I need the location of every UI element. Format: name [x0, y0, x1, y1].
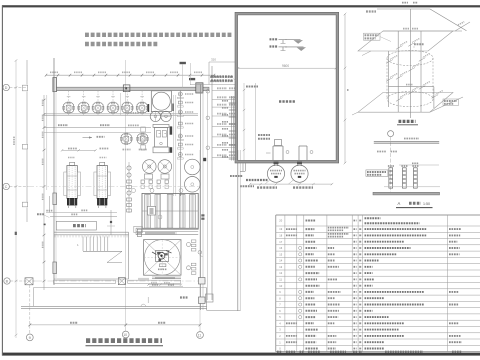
water tank walls	[236, 14, 337, 162]
tank inner dim	[238, 67, 336, 69]
wall to tank	[190, 83, 236, 85]
tower dim line	[148, 284, 181, 286]
riser branch 157.7	[212, 157, 236, 159]
outer dimension line	[15, 60, 17, 338]
axis circle 9	[26, 334, 33, 341]
outer dim label	[13, 136, 15, 145]
sheet border left	[1, 5, 3, 355]
right side label	[246, 179, 268, 181]
boiler label 2	[100, 148, 109, 150]
left wall	[53, 58, 55, 285]
wall tick hatch	[55, 235, 127, 238]
svg-text:A: A	[398, 201, 401, 206]
apron top edge	[33, 287, 206, 289]
side boxes	[134, 226, 143, 232]
apron bottom double line	[21, 305, 207, 307]
iso top edge labels	[402, 2, 408, 4]
equipment table frame	[276, 214, 480, 216]
axis B line across apron	[36, 280, 206, 282]
apron dim	[149, 285, 183, 287]
dark tick right of unit 6	[148, 104, 150, 112]
apron door bump	[141, 304, 146, 306]
iso roof plane	[358, 31, 453, 51]
dark tick	[44, 224, 46, 226]
expansion tank pedestal	[153, 124, 169, 127]
iso valve 421,60	[419, 59, 423, 62]
detail axis circle	[388, 131, 394, 137]
iso right pipe diagonal	[430, 97, 463, 112]
lintel bar	[189, 78, 195, 80]
tank capacity label	[279, 100, 296, 103]
isometric top label	[366, 10, 376, 12]
pump P5	[143, 160, 157, 174]
column K3	[196, 83, 203, 93]
suction pipes 2	[298, 146, 300, 161]
iso pipe level 2	[383, 30, 462, 32]
riser pipe	[211, 66, 213, 300]
flow arrow	[83, 137, 93, 139]
pump unit PU8	[137, 134, 147, 144]
bottom dimension line	[30, 324, 200, 326]
wall dark clip	[203, 158, 206, 161]
tank cylinder bottom	[387, 92, 433, 107]
duct drop line	[182, 64, 184, 87]
svg-text:11: 11	[198, 333, 202, 337]
trench boxes	[137, 229, 141, 233]
axis 11 line	[199, 150, 201, 332]
iso valve 410.5,93	[408, 92, 412, 95]
iso left label box	[364, 33, 381, 40]
wall column C4	[199, 278, 206, 285]
tank right dim	[344, 14, 346, 163]
pump unit PU6	[137, 103, 147, 113]
cooling tower CT1	[144, 240, 182, 276]
axis circle 11	[197, 332, 204, 339]
planter 2	[128, 280, 181, 283]
riser branch 90.7	[212, 90, 236, 92]
svg-text:D: D	[5, 86, 8, 90]
west wall segment 1	[26, 60, 28, 85]
dark bar right of HX	[172, 104, 174, 112]
pipe run 3	[44, 131, 151, 133]
pump P3	[150, 111, 160, 121]
pipe fitting circles	[206, 90, 210, 94]
door step	[206, 294, 214, 302]
unit leaders row2	[123, 149, 131, 151]
iso valve 410.5,70	[408, 69, 412, 72]
iso valve 398.2,78	[396, 77, 400, 80]
left stub label	[230, 175, 243, 177]
sheet border top	[2, 5, 480, 7]
detail text box	[366, 170, 388, 176]
fitting group 1	[141, 180, 144, 183]
chiller control box	[148, 206, 156, 215]
svg-text:9600: 9600	[282, 64, 289, 68]
chiller CH1	[142, 193, 198, 229]
iso right label box	[443, 99, 459, 105]
tank cylinder sides	[386, 58, 388, 99]
burner block 1	[67, 198, 77, 205]
detail dim	[399, 164, 439, 166]
stairs	[82, 237, 84, 252]
column B mark	[25, 278, 33, 285]
pump unit PU5	[122, 103, 132, 113]
iso mid label	[414, 43, 424, 45]
front pipes	[46, 212, 117, 214]
iso valve 398.2,100	[396, 99, 400, 102]
axis circle B	[4, 278, 10, 284]
drain label	[37, 213, 45, 215]
iso valve 388.4,62	[386, 61, 390, 64]
pump unit PU2	[79, 103, 89, 113]
pump bases	[145, 174, 153, 179]
tank bottom dim	[250, 183, 332, 185]
west wall pilaster 1	[22, 85, 27, 91]
room name plate	[56, 221, 96, 230]
iso title	[399, 120, 416, 123]
plan title	[86, 338, 162, 343]
planter 1	[54, 280, 116, 283]
pipe run 2	[44, 127, 151, 129]
float valve 1	[279, 39, 288, 41]
wall column C2	[53, 193, 57, 205]
stair room	[54, 231, 129, 233]
axis circle C	[3, 183, 9, 189]
table columns	[284, 215, 286, 352]
wall dark marks	[201, 214, 204, 216]
column K2	[123, 85, 130, 92]
pump P4	[161, 111, 171, 121]
detail beam	[374, 141, 439, 143]
pump unit PU1	[64, 103, 74, 113]
pump unit PU3	[93, 103, 103, 113]
iso valve 398.2,48	[396, 47, 400, 50]
buffer tank T1	[185, 159, 201, 175]
pump labels	[257, 186, 277, 188]
wall fitting circle	[198, 251, 202, 255]
riser branch 99.7	[212, 99, 236, 101]
duct dark bar	[180, 62, 186, 64]
riser branch 107.1	[212, 106, 236, 108]
pipe run 1	[44, 112, 198, 114]
column K1	[53, 78, 57, 92]
left dim labels	[42, 99, 44, 106]
top wall band	[54, 87, 209, 90]
riser branch 126.4	[212, 125, 236, 127]
riser top labels	[210, 76, 233, 78]
axis 9 line	[29, 285, 31, 334]
pump unit PU7	[121, 134, 131, 144]
left small boxes	[141, 127, 146, 132]
tower label	[158, 268, 167, 270]
west wall pilaster 2	[22, 144, 27, 149]
tank left risers	[230, 96, 232, 161]
tank drain elbow	[242, 163, 244, 171]
tower fittings B	[187, 266, 191, 270]
note text line 2	[85, 42, 159, 46]
boiler dim ticks	[68, 157, 75, 159]
table rows	[276, 225, 480, 227]
valve column riser	[179, 90, 181, 196]
detail lower dim	[384, 186, 440, 188]
feed pump FP1	[267, 165, 284, 182]
isometric top pipe	[377, 8, 430, 10]
iso valve 410.5,45	[408, 44, 412, 47]
sill extension	[138, 277, 149, 279]
float label 2	[270, 45, 279, 47]
boiler jacket 1	[64, 172, 67, 196]
svg-text:10: 10	[123, 333, 127, 337]
riser branch 136.9	[212, 136, 236, 138]
tank cylinder top	[387, 50, 433, 65]
detail columns	[389, 168, 393, 188]
tank top-left labels	[211, 75, 233, 77]
dark bar right 2	[170, 147, 173, 153]
pipe pair	[173, 95, 175, 196]
boiler B1	[70, 162, 75, 165]
suction pipes	[272, 146, 274, 161]
pump unit PU4	[108, 103, 118, 113]
riser dim line	[207, 88, 209, 300]
boiler B2	[100, 162, 105, 165]
west wall pilaster 3	[22, 202, 27, 207]
iso floor plane	[358, 93, 453, 113]
dark bar right 1	[170, 126, 173, 134]
boiler dim line	[62, 149, 96, 151]
wall column C5	[199, 297, 206, 304]
iso top diagonal	[430, 9, 467, 31]
riser branch 147.3	[212, 146, 236, 148]
axis10 column on B	[118, 278, 125, 285]
west wall segment 3	[26, 150, 28, 203]
pipe trench	[136, 227, 198, 229]
pipe labels right	[128, 112, 139, 114]
detail labels	[377, 151, 386, 153]
iso branch up-right	[455, 22, 470, 31]
axis 10 line	[125, 60, 127, 331]
detail ground	[373, 192, 440, 195]
label circles	[132, 189, 136, 193]
boiler jacket 2	[94, 172, 97, 196]
drain pipe	[48, 196, 50, 213]
boiler label 1	[68, 148, 77, 150]
tower center cluster	[156, 251, 169, 262]
fitting group 2	[128, 162, 130, 213]
duct line	[189, 63, 191, 85]
tank water level label	[246, 86, 258, 88]
iso valve 388.4,80	[386, 79, 390, 82]
riser branch 116.0	[212, 115, 236, 117]
sheet border bottom	[2, 353, 480, 356]
note text line 1	[85, 33, 233, 37]
iso mid pipe	[388, 86, 434, 88]
top dimension line	[46, 74, 214, 76]
axis circle D	[3, 84, 9, 90]
west wall segment 2	[26, 92, 28, 145]
outer dim dark tick	[15, 232, 17, 235]
svg-text:320: 320	[211, 58, 216, 62]
pump P6	[158, 160, 172, 174]
left dimension line	[43, 95, 45, 290]
burner block 2	[97, 198, 107, 205]
float label 1	[270, 38, 279, 40]
axis C line across plan	[28, 186, 200, 188]
valve stem	[110, 210, 112, 235]
wall column C3	[53, 262, 57, 274]
axis circle 10	[122, 331, 129, 338]
svg-text:C: C	[5, 185, 8, 189]
iso valve 421,88	[419, 87, 423, 90]
heat exchanger HX1	[151, 91, 171, 112]
iso valve 433.9,97	[432, 96, 436, 99]
tower drain box	[160, 264, 166, 267]
tank left dim line	[243, 83, 245, 160]
feed pump FP2	[291, 165, 308, 182]
iso pipe risers	[397, 31, 399, 112]
aux vertical	[119, 93, 121, 115]
buffer tank T2	[185, 177, 201, 193]
float valve 2	[279, 46, 288, 48]
svg-text:1:50: 1:50	[423, 202, 430, 206]
tower sill	[152, 276, 181, 278]
west wall segment 4	[26, 208, 28, 223]
right wall	[200, 85, 202, 311]
iso bottom-left stub	[352, 112, 358, 115]
tower fittings A	[187, 243, 191, 247]
courtyard wall	[237, 150, 239, 311]
